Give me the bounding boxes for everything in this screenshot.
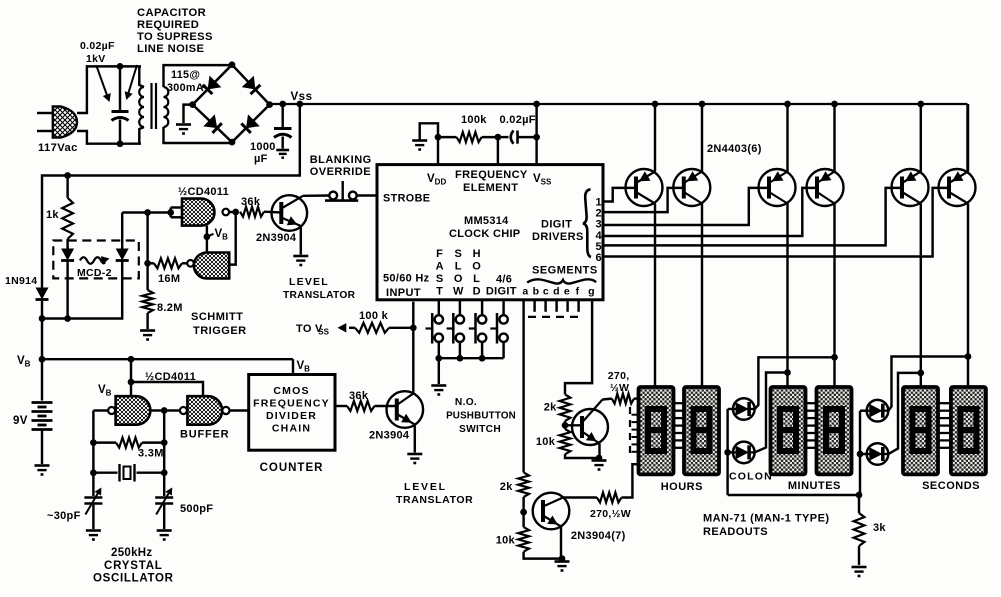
svg-text:MAN-71 (MAN-1 TYPE): MAN-71 (MAN-1 TYPE)	[703, 513, 830, 525]
svg-text:4/6: 4/6	[496, 274, 512, 286]
svg-text:3.3M: 3.3M	[138, 448, 164, 460]
svg-text:100 k: 100 k	[359, 310, 389, 322]
svg-text:DIGIT: DIGIT	[486, 286, 517, 298]
svg-text:MCD-2: MCD-2	[77, 267, 112, 279]
svg-text:16M: 16M	[158, 273, 180, 285]
svg-text:HOURS: HOURS	[661, 481, 703, 493]
svg-text:1N914: 1N914	[5, 275, 37, 287]
svg-text:50/60 Hz: 50/60 Hz	[383, 273, 430, 285]
svg-text:d: d	[553, 286, 560, 298]
svg-text:MINUTES: MINUTES	[788, 480, 841, 492]
svg-text:0.02µF: 0.02µF	[80, 40, 115, 52]
svg-text:PUSHBUTTON: PUSHBUTTON	[446, 411, 516, 422]
svg-text:100k: 100k	[461, 114, 487, 126]
svg-text:CRYSTAL: CRYSTAL	[104, 560, 163, 572]
svg-text:READOUTS: READOUTS	[703, 526, 768, 538]
svg-text:CHAIN: CHAIN	[272, 423, 311, 435]
svg-text:COUNTER: COUNTER	[260, 462, 324, 474]
svg-text:TRANSLATOR: TRANSLATOR	[283, 290, 356, 301]
svg-text:36k: 36k	[241, 196, 261, 208]
svg-text:117Vac: 117Vac	[38, 142, 78, 154]
svg-text:2k: 2k	[500, 481, 513, 493]
svg-text:DIGIT: DIGIT	[541, 219, 572, 231]
svg-text:½CD4011: ½CD4011	[178, 186, 229, 198]
svg-text:LINE NOISE: LINE NOISE	[137, 43, 205, 55]
svg-text:½CD4011: ½CD4011	[145, 371, 196, 383]
svg-text:O: O	[472, 261, 481, 273]
svg-text:250kHz: 250kHz	[111, 547, 152, 559]
svg-text:270,: 270,	[608, 370, 630, 382]
svg-text:FREQUENCY: FREQUENCY	[455, 169, 528, 181]
svg-text:SS: SS	[318, 327, 329, 336]
svg-text:CMOS: CMOS	[273, 385, 309, 397]
svg-text:COLON: COLON	[729, 471, 773, 483]
svg-text:L: L	[473, 273, 480, 285]
svg-text:SEGMENTS: SEGMENTS	[532, 265, 598, 277]
svg-text:0.02µF: 0.02µF	[500, 114, 536, 126]
svg-text:W: W	[453, 285, 464, 297]
svg-text:4: 4	[596, 230, 603, 242]
svg-text:CLOCK CHIP: CLOCK CHIP	[449, 228, 520, 240]
svg-text:½W: ½W	[610, 382, 629, 394]
svg-text:H: H	[473, 248, 481, 260]
svg-text:f: f	[576, 286, 580, 298]
svg-text:LEVEL: LEVEL	[289, 276, 329, 288]
svg-text:8.2M: 8.2M	[157, 302, 183, 314]
svg-text:500pF: 500pF	[180, 503, 213, 515]
svg-text:2k: 2k	[544, 402, 557, 414]
svg-text:1kV: 1kV	[86, 53, 106, 65]
svg-text:L: L	[455, 261, 462, 273]
svg-text:DIVIDER: DIVIDER	[266, 410, 317, 422]
svg-text:TO SUPRESS: TO SUPRESS	[137, 31, 213, 43]
svg-text:SCHMITT: SCHMITT	[191, 311, 243, 323]
svg-text:D: D	[473, 285, 481, 297]
svg-text:g: g	[588, 286, 595, 298]
svg-text:S: S	[436, 273, 444, 285]
svg-text:OSCILLATOR: OSCILLATOR	[93, 573, 174, 585]
svg-text:O: O	[454, 273, 463, 285]
svg-text:115@: 115@	[171, 69, 200, 81]
svg-text:2N3904(7): 2N3904(7)	[571, 530, 626, 542]
svg-text:CAPACITOR: CAPACITOR	[137, 7, 206, 19]
svg-text:36k: 36k	[349, 390, 369, 402]
svg-text:ELEMENT: ELEMENT	[463, 182, 518, 194]
svg-text:2: 2	[596, 208, 602, 220]
svg-text:9V: 9V	[13, 415, 28, 427]
svg-text:MM5314: MM5314	[464, 215, 509, 227]
svg-text:BUFFER: BUFFER	[180, 429, 229, 441]
svg-text:10k: 10k	[536, 436, 556, 448]
svg-text:2N4403(6): 2N4403(6)	[707, 143, 762, 155]
svg-text:INPUT: INPUT	[386, 287, 421, 299]
svg-text:A: A	[436, 261, 444, 273]
svg-text:OVERRIDE: OVERRIDE	[310, 166, 371, 178]
svg-text:N.O.: N.O.	[455, 397, 477, 408]
svg-text:µF: µF	[254, 153, 268, 165]
svg-text:1000: 1000	[250, 141, 276, 153]
svg-text:c: c	[543, 286, 549, 298]
svg-text:2N3904: 2N3904	[369, 430, 410, 442]
svg-text:2N3904: 2N3904	[256, 232, 297, 244]
svg-text:b: b	[533, 286, 540, 298]
svg-text:SECONDS: SECONDS	[922, 480, 980, 492]
svg-text:BLANKING: BLANKING	[310, 154, 372, 166]
svg-text:~30pF: ~30pF	[47, 510, 81, 522]
svg-text:TRIGGER: TRIGGER	[193, 325, 247, 337]
svg-text:10k: 10k	[496, 535, 516, 547]
svg-text:e: e	[564, 286, 570, 298]
svg-text:T: T	[436, 285, 443, 297]
svg-text:270,½W: 270,½W	[590, 508, 631, 520]
svg-text:DRIVERS: DRIVERS	[532, 231, 584, 243]
svg-text:a: a	[522, 286, 528, 298]
svg-text:S: S	[454, 248, 462, 260]
svg-text:REQUIRED: REQUIRED	[137, 19, 199, 31]
svg-text:F: F	[436, 248, 443, 260]
svg-text:STROBE: STROBE	[383, 193, 430, 205]
svg-text:SWITCH: SWITCH	[459, 424, 501, 435]
svg-text:3k: 3k	[873, 522, 886, 534]
svg-text:FREQUENCY: FREQUENCY	[253, 398, 330, 410]
svg-text:Vss: Vss	[291, 91, 313, 103]
svg-text:300mA: 300mA	[167, 82, 204, 94]
svg-text:LEVEL: LEVEL	[404, 481, 447, 493]
svg-text:TRANSLATOR: TRANSLATOR	[396, 494, 473, 506]
svg-text:1k: 1k	[46, 209, 59, 221]
svg-text:6: 6	[596, 252, 602, 264]
